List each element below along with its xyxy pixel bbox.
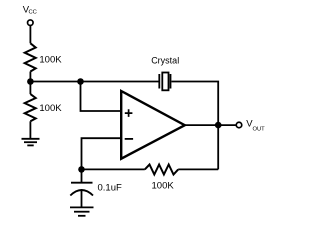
wire Vcc to R1 [29,26,31,44]
svg-text:100K: 100K [152,180,175,191]
resistor R3 [145,165,178,175]
Vout terminal [236,122,242,128]
svg-text:100K: 100K [39,55,62,66]
wire node B to op-amp + input [81,82,122,112]
wire R2 to ground [29,121,31,138]
node C [78,166,85,173]
wire R3 to right bus [178,168,218,170]
wire op-amp output to Vout [185,124,236,126]
node B [77,78,84,85]
crystal X1 [159,73,170,91]
node A [27,78,34,85]
ground (below C1) [70,207,94,215]
resistor R1 [25,43,36,71]
wire op-amp - input to node C [82,138,122,169]
output node [215,122,222,129]
Vcc terminal [28,20,34,26]
wire node C to R3 [82,168,145,170]
svg-text:0.1uF: 0.1uF [98,183,122,194]
capacitor C1 [70,183,93,196]
wire crystal to right bus, down to bottom-right corner [172,82,219,170]
svg-text:100K: 100K [39,103,62,114]
wire node A to R2 [29,82,31,95]
wire R1 to node A [29,72,31,82]
wire node C to capacitor [81,169,83,182]
svg-text:Crystal: Crystal [151,55,179,65]
op-amp U1 [121,91,185,159]
wire capacitor to ground [81,190,83,208]
wire node A to crystal (top rail) [30,81,158,83]
resistor R2 [25,94,36,121]
ground (below R2) [22,139,40,146]
